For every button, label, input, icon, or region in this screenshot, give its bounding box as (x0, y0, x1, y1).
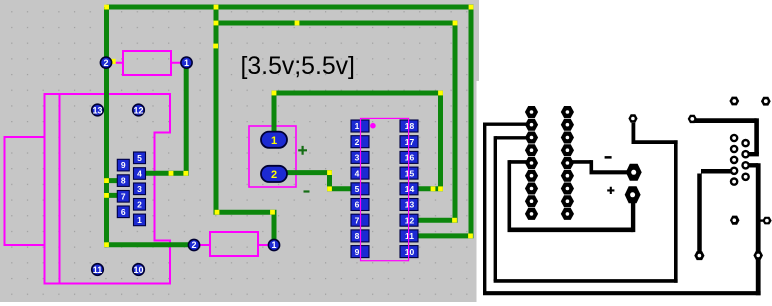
U1 pin 1 (351, 120, 369, 132)
via at end of inner loop (628, 114, 637, 122)
svg-text:8: 8 (121, 176, 126, 186)
junction (455,23) (453, 21, 458, 26)
DB9 pad 7 (117, 191, 129, 203)
svg-text:1: 1 (271, 135, 277, 147)
svg-text:10: 10 (405, 247, 415, 257)
U1 pin 7 (351, 214, 369, 226)
svg-text:3: 3 (137, 184, 142, 194)
svg-text:3: 3 (355, 153, 360, 163)
svg-text:9: 9 (121, 160, 126, 170)
svg-text:9: 9 (355, 247, 360, 257)
DB9 pad 5 (134, 152, 146, 164)
wire stub to DB9 pad 8 (105, 178, 130, 183)
svg-text:1: 1 (137, 215, 142, 225)
svg-text:7: 7 (121, 191, 126, 201)
junction (216,23) (214, 21, 219, 26)
junction (107,7) (104, 5, 109, 10)
wire net2: IC U1 pin 12 to second rail to x216 vertical (216, 23, 455, 220)
DB9 pad 6 (117, 206, 129, 218)
junction (433,188.8) (431, 186, 436, 191)
DB9 print hex pad bottom left (694, 251, 704, 260)
svg-text:[3.5v;5.5v]: [3.5v;5.5v] (241, 53, 355, 80)
junction (171,173.3) (169, 171, 174, 176)
DB9 pad 1 (134, 214, 146, 226)
svg-text:2: 2 (271, 169, 277, 181)
junction (329.5,188.8) (327, 186, 332, 191)
wire net3: R1 pad 1 down to DB9 pad 4 (140, 63, 187, 173)
U1 pin 5 (351, 183, 369, 195)
svg-text:4: 4 (137, 169, 142, 179)
U1 pin 3 (351, 151, 369, 163)
svg-text:12: 12 (133, 105, 143, 115)
U1 pin 2 (351, 136, 369, 148)
IC U1 pin1 marker dot (370, 123, 376, 129)
svg-text:1: 1 (271, 240, 276, 250)
junction (440.5,93) (438, 91, 443, 96)
board trace: outer loop left (483, 123, 761, 296)
svg-text:12: 12 (405, 215, 415, 225)
junction (329.5,172.6) (327, 170, 332, 175)
DB9 print pads column B (741, 139, 750, 181)
board trace: top right route from via to DB9 print pad B2 (694, 118, 759, 154)
DB9 X1 hole pad 11 (92, 264, 104, 276)
U1 pin 9 (351, 246, 369, 258)
IC U1 DIP18 pads (351, 120, 418, 258)
resistor R2 outline (200, 232, 269, 256)
wire stub to DB9 pad 7 (105, 193, 130, 198)
plus label (print) (607, 187, 614, 194)
svg-text:1: 1 (355, 121, 360, 131)
DB9 pad 4 (134, 168, 146, 180)
junction near R1 pad2 (113.5,61.5) (111, 59, 116, 64)
DB9 X1 hole pad 10 (133, 264, 145, 276)
R1 pad 1 (181, 57, 192, 68)
svg-text:4: 4 (355, 168, 360, 178)
svg-text:2: 2 (137, 199, 142, 209)
DB9 pad 2 (134, 199, 146, 211)
wire net1: IC U1 pin 11 to top rail to R1 pad 2 (107, 7, 472, 236)
svg-text:15: 15 (405, 168, 415, 178)
board trace: to minus pad (567, 160, 628, 172)
power connector X2 pad 1 (261, 132, 287, 148)
isolated hex pad (print) (730, 216, 740, 225)
svg-text:6: 6 (121, 207, 126, 217)
DB9 X1 square pads 9..6 and 5..1 (117, 152, 145, 226)
DB9 X1 hole pad 12 (133, 104, 145, 116)
U1 pin 10 (400, 246, 418, 258)
plus sign marking positive supply (298, 146, 307, 155)
svg-text:8: 8 (355, 231, 360, 241)
R2 pad 1 (268, 239, 279, 250)
U1 pin 6 (351, 199, 369, 211)
via at end of outer loop (688, 115, 697, 123)
U1 pin 15 (400, 167, 418, 179)
svg-text:13: 13 (405, 200, 415, 210)
DIP column B holes (566, 110, 570, 216)
svg-text:5: 5 (355, 184, 360, 194)
DB9 pad 9 (117, 159, 129, 171)
junction (217,212.2) (215, 210, 220, 215)
junction (454.5,220.2) (452, 218, 457, 223)
power connector X2 outline (249, 126, 296, 187)
minus sign marking negative supply (304, 190, 310, 192)
U1 pin 14 (400, 183, 418, 195)
U1 pin 4 (351, 167, 369, 179)
svg-text:11: 11 (405, 231, 414, 241)
junction (106.5,195.4) (104, 193, 109, 198)
junction (274,93) (272, 91, 277, 96)
svg-text:7: 7 (355, 215, 360, 225)
junction (297,23) (295, 21, 300, 26)
U1 pin 8 (351, 230, 369, 242)
DB9 print trace: from pad A4 down to hex pad (700, 171, 735, 253)
junction (215.5,46) (213, 44, 218, 49)
power connector X2 pad 2 (261, 166, 287, 182)
junction (106.5,244.7) (104, 242, 109, 247)
via on right vertical trace (753, 251, 763, 260)
wire net1: vertical from R1 pad2 down left side to R2 pad 2 (107, 7, 195, 245)
junction (272.5,212.2) (270, 210, 275, 215)
svg-text:2: 2 (355, 137, 360, 147)
junction (216,7) (214, 5, 219, 10)
svg-text:17: 17 (405, 137, 415, 147)
wire net4: power pad 1 up over to IC U1 pin 14 (274, 93, 441, 189)
U1 pin 16 (400, 151, 418, 163)
minus supply pad (print) (626, 164, 642, 181)
connector X1 DB9 outline (5, 94, 171, 284)
hex pad attached right of vertical (print) (760, 217, 771, 225)
R2 pad 2 (188, 239, 199, 250)
board trace: bottom right vertical from DB9 print pad B3 (746, 163, 759, 295)
board trace: supply loop to plus pad (508, 160, 634, 232)
svg-text:6: 6 (355, 200, 360, 210)
voltage range label (241, 53, 355, 80)
U1 pin 18 (400, 120, 418, 132)
U1 pin 13 (400, 199, 418, 211)
IC U1 outline (361, 118, 409, 260)
U1 pin 17 (400, 136, 418, 148)
junction (106.5,180.6) (104, 178, 109, 183)
board trace: inner loop to via (494, 123, 678, 283)
junction (185.8,173.3) (183, 171, 188, 176)
junction (470.5,235.9) (468, 234, 473, 239)
U1 pin 11 (400, 230, 418, 242)
DIP column A holes (530, 110, 534, 216)
top mounting pads (print) (729, 97, 739, 106)
DB9 X1 hole pad 13 (92, 104, 104, 116)
svg-text:14: 14 (405, 184, 415, 194)
DIP column B pads (print) (561, 106, 574, 220)
svg-text:18: 18 (405, 121, 415, 131)
R1 pad 2 (100, 57, 111, 68)
DIP column A pads (print) (525, 106, 538, 220)
svg-text:11: 11 (93, 265, 103, 275)
U1 pin 12 (400, 214, 418, 226)
minus label (print) (605, 156, 612, 159)
wire net5: power pad 2 to IC U1 pin 5 (278, 173, 360, 189)
svg-text:13: 13 (92, 105, 102, 115)
junction (471,7) (469, 5, 474, 10)
DB9 pad 8 (117, 175, 129, 187)
svg-text:16: 16 (405, 153, 415, 163)
plus supply pad (print) (625, 186, 641, 203)
DB9 print pads column A (730, 134, 739, 186)
svg-text:5: 5 (137, 153, 142, 163)
svg-text:10: 10 (133, 265, 143, 275)
DB9 pad 3 (134, 183, 146, 195)
svg-text:2: 2 (191, 240, 196, 250)
svg-text:1: 1 (184, 58, 189, 68)
resistor R1 outline (111, 51, 181, 75)
svg-text:2: 2 (103, 58, 108, 68)
junction (440.5,188.8) (438, 186, 443, 191)
wire net2: vertical x216 down to R2 pad 1 (216, 5, 274, 245)
